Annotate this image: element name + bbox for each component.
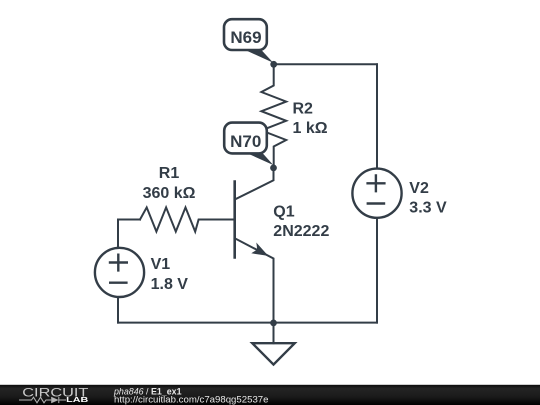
svg-text:1.8 V: 1.8 V <box>151 276 189 293</box>
value label V1 <box>151 256 189 293</box>
value label V2 <box>409 180 447 217</box>
wire bottom rail (ground net) <box>118 322 377 324</box>
svg-text:LAB: LAB <box>66 395 89 404</box>
transistor Q1 base bar <box>233 180 236 258</box>
resistor R2 (1 k) zigzag <box>261 64 286 168</box>
logo diode triangle <box>51 397 58 404</box>
V2 minus sign <box>368 202 384 204</box>
svg-text:360 kΩ: 360 kΩ <box>143 185 196 202</box>
transistor Q1 emitter arrowhead <box>251 243 268 256</box>
V2 plus sign <box>368 175 385 191</box>
transistor Q1 collector lead <box>235 168 274 200</box>
ground triangle <box>252 343 294 364</box>
logo resistor-diode squiggle <box>19 397 66 403</box>
svg-text:3.3 V: 3.3 V <box>409 200 447 217</box>
wire left rail upper (V1 + to R1) <box>118 220 140 248</box>
node flag N70 box <box>224 123 267 154</box>
svg-text:2N2222: 2N2222 <box>273 223 329 240</box>
node flag N70 pointer <box>241 151 273 166</box>
node junction dot N69 <box>270 61 277 68</box>
node flag N69 pointer <box>238 47 274 63</box>
svg-text:N69: N69 <box>230 28 261 47</box>
node junction dot ground net <box>270 320 277 327</box>
V2 source circle <box>352 169 401 218</box>
svg-text:R1: R1 <box>159 165 180 182</box>
wire right rail lower (V2 - to bottom) <box>376 219 378 323</box>
svg-text:1 kΩ: 1 kΩ <box>293 120 328 137</box>
wire left rail lower (V1 - to bottom) <box>117 297 119 322</box>
svg-text:V2: V2 <box>409 180 429 197</box>
value label R2 <box>293 101 328 137</box>
svg-text:http://circuitlab.com/c7a98qg5: http://circuitlab.com/c7a98qg52537e <box>114 395 269 405</box>
wire top rail (node N69) <box>274 63 377 65</box>
transistor Q1 emitter lead <box>235 238 274 322</box>
ground lead <box>273 323 275 344</box>
V1 minus sign <box>110 282 126 284</box>
node junction dot N70 <box>270 165 277 172</box>
value label Q1 <box>273 204 329 240</box>
wire right rail upper (to V2 +) <box>376 64 378 168</box>
node flag N69 box <box>224 19 267 50</box>
resistor R1 (360 k) zigzag <box>140 207 235 231</box>
V1 source circle <box>95 248 144 297</box>
V1 plus sign <box>110 255 127 271</box>
svg-text:R2: R2 <box>293 101 314 118</box>
svg-text:N70: N70 <box>230 132 261 151</box>
svg-text:V1: V1 <box>151 256 171 273</box>
value label R1 <box>143 165 196 202</box>
svg-text:Q1: Q1 <box>273 204 294 221</box>
